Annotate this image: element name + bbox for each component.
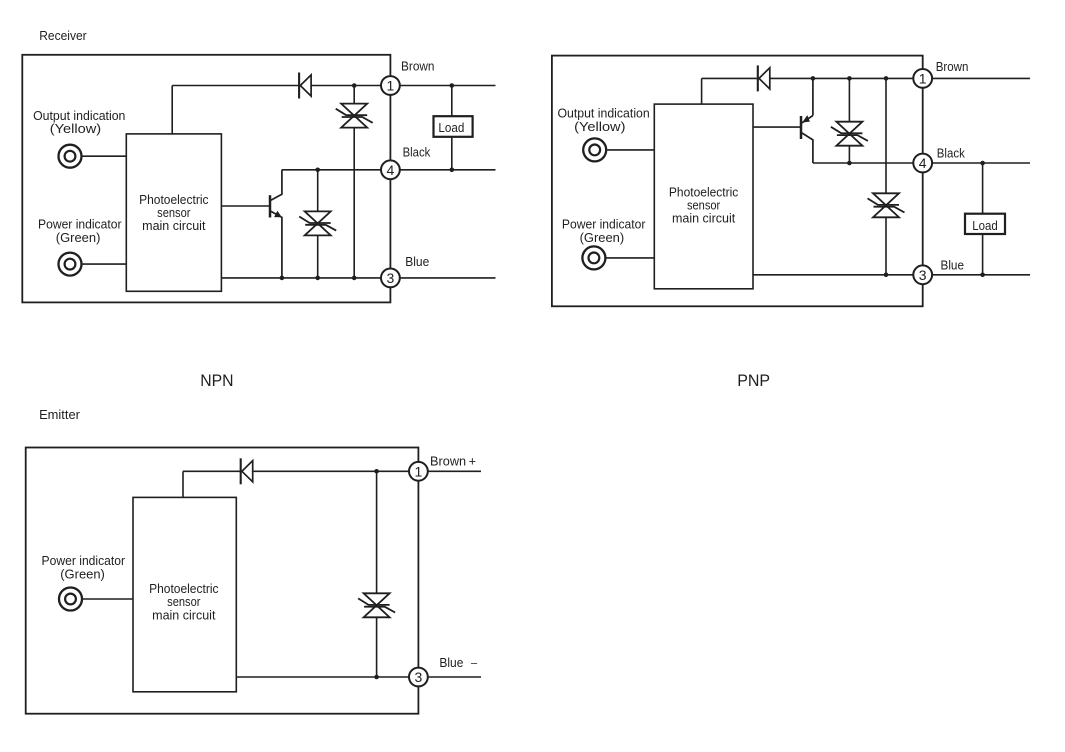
svg-text:1: 1 <box>919 70 927 86</box>
surge absorber ZD5 (Emitter) <box>358 593 395 617</box>
svg-text:Load: Load <box>972 218 998 233</box>
wire: surge absorber column brown-blue (NPN) <box>353 86 355 278</box>
svg-text:Brown +: Brown + <box>430 455 476 469</box>
wire: green LED to main circuit (PNP) <box>606 257 654 259</box>
block: Photoelectric sensor main circuit (NPN) <box>126 134 221 291</box>
load box (NPN) <box>434 116 473 137</box>
label: Power indicator (Green) PNP <box>562 216 646 245</box>
svg-text:3: 3 <box>415 669 423 685</box>
junction: ZD2 / blue rail (NPN) <box>315 276 320 281</box>
surge absorber ZD4 brown-blue (PNP) <box>868 193 905 217</box>
junction: ZD5 / blue rail (Emitter) <box>374 675 379 680</box>
junction: emitter / blue rail (NPN) <box>280 276 285 281</box>
wire: load branch (NPN) <box>451 86 453 170</box>
svg-text:1: 1 <box>415 463 423 479</box>
wire: brown rail to terminal 1 (PNP) <box>702 77 923 79</box>
wire: yellow LED to main circuit (PNP) <box>607 149 654 151</box>
svg-text:(Yellow): (Yellow) <box>574 119 625 134</box>
wire: main circuit to terminal 3 blue rail (NPN) <box>221 277 390 279</box>
label: Output indication (Yellow) PNP <box>557 106 649 135</box>
junction: ZD1 / blue rail (NPN) <box>352 276 357 281</box>
svg-text:4: 4 <box>919 155 927 171</box>
block: Photoelectric sensor main circuit (Emitter) <box>133 497 236 691</box>
junction: brown rail / surge absorber (NPN) <box>352 83 357 88</box>
receiver NPN sensor case outline <box>22 55 390 303</box>
diode D1 reverse-protection (NPN) <box>299 73 311 99</box>
wire: surge absorber column brown-black (PNP) <box>848 78 850 163</box>
svg-text:1: 1 <box>387 78 395 94</box>
junction: ZD3 / black rail (PNP) <box>847 161 852 166</box>
wire: base drive from main circuit to transistor (NPN) <box>221 205 270 207</box>
wire: terminal 3 blue lead out (PNP) <box>923 274 1030 276</box>
transistor Q1 NPN output <box>270 170 282 278</box>
LED power indicator (green) Emitter <box>59 588 82 611</box>
junction: brown rail / transistor emitter (PNP) <box>811 76 816 81</box>
wire: green LED to main circuit (Emitter) <box>83 598 133 600</box>
junction: brown rail / surge absorber (Emitter) <box>374 469 379 474</box>
junction: ZD4 / blue rail (PNP) <box>884 273 889 278</box>
terminal 1 pin Brown+ (Emitter) <box>409 462 428 481</box>
wire: terminal 3 blue lead out (NPN) <box>390 277 495 279</box>
wire: terminal 1 brown lead out (NPN) <box>390 85 495 87</box>
svg-text:main circuit: main circuit <box>142 218 206 233</box>
svg-text:Blue: Blue <box>941 258 965 272</box>
transistor Q2 PNP output <box>801 78 813 163</box>
LED output indicator (yellow) NPN <box>59 145 82 168</box>
wire: main circuit top to brown rail (Emitter) <box>182 471 184 497</box>
diode D2 reverse-protection (PNP) <box>758 65 770 91</box>
svg-text:PNP: PNP <box>737 371 770 390</box>
svg-text:Blue: Blue <box>439 656 463 670</box>
terminal 3 pin Blue (PNP) <box>913 265 932 284</box>
emitter sensor case outline <box>26 448 419 714</box>
wire: green LED to main circuit (NPN) <box>83 263 127 265</box>
svg-text:Receiver: Receiver <box>39 28 87 43</box>
label: Output indication (Yellow) <box>33 108 125 136</box>
svg-text:3: 3 <box>919 267 927 283</box>
terminal 1 pin Brown (NPN) <box>381 76 400 95</box>
receiver PNP sensor case outline <box>552 56 923 307</box>
terminal 1 pin Brown (PNP) <box>913 69 932 88</box>
load box (PNP) <box>965 214 1005 234</box>
svg-text:Emitter: Emitter <box>39 407 80 422</box>
junction: load bottom (NPN) <box>450 168 455 173</box>
label: Power indicator (Green) <box>38 216 122 245</box>
wire: terminal 1 brown lead out (Emitter) <box>418 470 481 472</box>
svg-text:(Green): (Green) <box>60 567 105 582</box>
junction: brown rail / ZD4 (PNP) <box>884 76 889 81</box>
svg-text:(Green): (Green) <box>56 230 101 245</box>
wire: brown rail to terminal 1 (Emitter) <box>183 470 418 472</box>
diode D3 reverse-protection (Emitter) <box>241 458 253 484</box>
LED output indicator (yellow) PNP <box>583 138 606 161</box>
svg-text:Brown: Brown <box>936 60 969 74</box>
svg-text:Blue: Blue <box>405 255 429 269</box>
svg-text:NPN: NPN <box>200 371 233 390</box>
svg-text:4: 4 <box>387 162 395 178</box>
svg-text:Black: Black <box>937 146 966 160</box>
block: Photoelectric sensor main circuit (PNP) <box>654 104 753 289</box>
wire: load branch (PNP) <box>982 163 984 275</box>
wire: surge absorber column black-blue (NPN) <box>317 170 319 278</box>
svg-text:–: – <box>471 657 478 669</box>
wire: terminal 1 brown lead out (PNP) <box>923 77 1030 79</box>
surge absorber ZD2 black-blue (NPN) <box>299 211 336 235</box>
surge absorber ZD3 brown-black (PNP) <box>831 122 868 146</box>
terminal 4 pin Black (NPN) <box>381 160 400 179</box>
svg-text:3: 3 <box>387 270 395 286</box>
wire: brown rail to terminal 1 (NPN) <box>172 85 390 87</box>
wire: terminal 4 black lead out (PNP) <box>923 162 1030 164</box>
wire: yellow LED to main circuit (NPN) <box>83 155 127 157</box>
LED power indicator (green) NPN <box>59 253 82 276</box>
wire: main circuit to terminal 3 blue rail (PNP) <box>753 274 923 276</box>
wire: collector to terminal 4 black rail (NPN) <box>282 169 391 171</box>
svg-text:main circuit: main circuit <box>152 607 216 622</box>
junction: load top (PNP) <box>980 161 985 166</box>
svg-text:Black: Black <box>403 146 431 160</box>
junction: load bottom (PNP) <box>980 273 985 278</box>
terminal 3 pin Blue (NPN) <box>381 269 400 288</box>
junction: black rail / surge absorber 2 (NPN) <box>315 168 320 173</box>
surge absorber ZD1 brown-blue (NPN) <box>336 104 373 128</box>
terminal 4 pin Black (PNP) <box>913 154 932 173</box>
wire: base drive from main circuit to transistor (PNP) <box>753 126 801 128</box>
svg-text:Load: Load <box>438 120 464 135</box>
wire: terminal 3 blue lead out (Emitter) <box>418 676 481 678</box>
LED power indicator (green) PNP <box>582 246 605 269</box>
svg-text:(Yellow): (Yellow) <box>50 121 101 136</box>
wire: collector to terminal 4 black rail (PNP) <box>813 162 923 164</box>
junction: brown rail / ZD3 (PNP) <box>847 76 852 81</box>
junction: load top (NPN) <box>450 83 455 88</box>
wire: main circuit to terminal 3 blue rail (Emitter) <box>236 676 418 678</box>
wire: surge absorber column brown-blue (PNP) <box>885 78 887 274</box>
label: Power indicator (Green) Emitter <box>42 553 126 582</box>
wire: main circuit top to brown rail (NPN) <box>171 86 173 134</box>
svg-text:Brown: Brown <box>401 59 435 73</box>
svg-text:(Green): (Green) <box>580 230 625 245</box>
wire: main circuit top to brown rail (PNP) <box>701 78 703 104</box>
terminal 3 pin Blue- (Emitter) <box>409 668 428 687</box>
wire: surge absorber column (Emitter) <box>376 471 378 677</box>
wire: terminal 4 black lead out (NPN) <box>390 169 495 171</box>
svg-text:main circuit: main circuit <box>672 211 736 226</box>
